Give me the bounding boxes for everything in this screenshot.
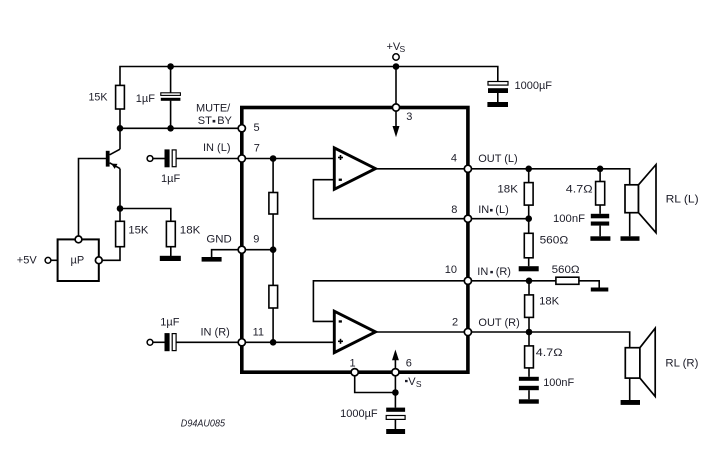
svg-text:9: 9 [253, 234, 259, 246]
svg-text:OUT (R): OUT (R) [478, 317, 519, 329]
svg-text:560Ω: 560Ω [540, 235, 569, 247]
svg-text:1µF: 1µF [161, 173, 180, 185]
svg-text:µP: µP [71, 255, 85, 267]
svg-text:OUT (L): OUT (L) [478, 153, 518, 165]
svg-text:15K: 15K [128, 225, 149, 237]
svg-text:15K: 15K [89, 91, 109, 103]
svg-text:1: 1 [350, 358, 356, 370]
svg-text:1000µF: 1000µF [340, 408, 378, 420]
svg-text:100nF: 100nF [543, 377, 574, 389]
svg-text:S: S [416, 379, 422, 389]
svg-text:18K: 18K [180, 225, 201, 237]
svg-text:560Ω: 560Ω [552, 264, 580, 276]
svg-text:ST: ST [198, 115, 212, 127]
svg-text:(R): (R) [496, 266, 511, 278]
svg-text:1µF: 1µF [160, 317, 179, 329]
svg-text:2: 2 [452, 317, 458, 329]
svg-text:D94AU085: D94AU085 [181, 418, 226, 429]
svg-text:7: 7 [254, 142, 260, 154]
svg-text:100nF: 100nF [553, 213, 585, 225]
svg-text:10: 10 [445, 264, 457, 276]
svg-text:IN: IN [478, 204, 489, 216]
svg-text:RL (L): RL (L) [666, 194, 699, 206]
svg-text:1µF: 1µF [136, 93, 155, 105]
svg-text:IN (L): IN (L) [203, 142, 231, 154]
svg-text:GND: GND [206, 234, 231, 246]
svg-text:S: S [400, 44, 406, 54]
svg-text:BY: BY [217, 115, 232, 127]
svg-text:18K: 18K [497, 183, 518, 195]
svg-text:5: 5 [254, 122, 260, 134]
svg-text:4.7Ω: 4.7Ω [536, 347, 563, 359]
svg-text:+5V: +5V [17, 255, 38, 267]
svg-text:MUTE/: MUTE/ [196, 102, 231, 114]
svg-text:1000µF: 1000µF [515, 80, 553, 92]
svg-text:IN (R): IN (R) [201, 326, 230, 338]
svg-text:18K: 18K [539, 295, 560, 307]
svg-text:6: 6 [406, 358, 412, 370]
svg-text:11: 11 [253, 326, 264, 338]
svg-text:IN: IN [477, 266, 488, 278]
svg-text:(L): (L) [495, 204, 508, 216]
svg-text:4.7Ω: 4.7Ω [566, 183, 593, 195]
svg-text:RL (R): RL (R) [665, 358, 698, 370]
svg-text:8: 8 [451, 204, 457, 216]
svg-text:4: 4 [451, 153, 457, 165]
svg-text:3: 3 [406, 111, 412, 123]
